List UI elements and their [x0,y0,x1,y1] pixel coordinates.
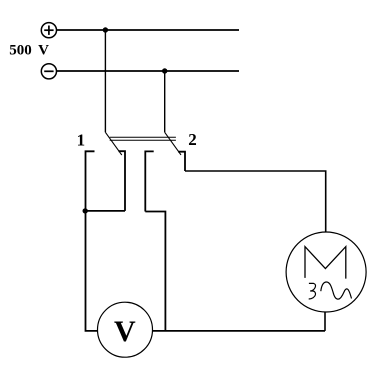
wire bottom return [153,330,325,332]
wire contact 2 to motor [185,171,326,232]
wire top bus [57,29,240,31]
contact middle finger [145,151,153,211]
wire voltmeter left branch [86,211,98,331]
wire motor bottom [324,312,326,331]
svg-text:2: 2 [188,130,197,149]
motor label 3 [309,283,316,299]
motor circle M1 [286,232,366,312]
svg-text:V: V [38,42,49,58]
wire pole 1 vertical [104,30,106,132]
battery positive terminal [41,23,56,38]
svg-text:500: 500 [9,42,32,58]
junction top bus to pole 1 [103,27,108,32]
wire bottom bus [57,70,240,72]
motor label sine wave [321,282,352,299]
voltmeter circle [98,302,153,357]
contact 2 finger [178,152,185,171]
svg-text:V: V [114,315,136,348]
junction contact 1 to voltmeter branch [83,208,88,213]
contact 1 left finger [86,151,95,211]
switch blade 1 [105,132,121,155]
junction bottom bus to pole 2 [162,68,167,73]
label 500 V [9,42,49,58]
svg-text:1: 1 [77,130,86,149]
motor letter M [305,247,346,279]
wire contact 1 bottom link [86,210,126,212]
wire pole 2 vertical [164,71,166,132]
switch blade 2 [165,132,181,155]
switch link bar (double line) [110,137,176,140]
battery negative terminal [41,64,56,79]
wire middle finger to right drop [145,212,165,331]
contact 1 right finger [119,151,126,211]
